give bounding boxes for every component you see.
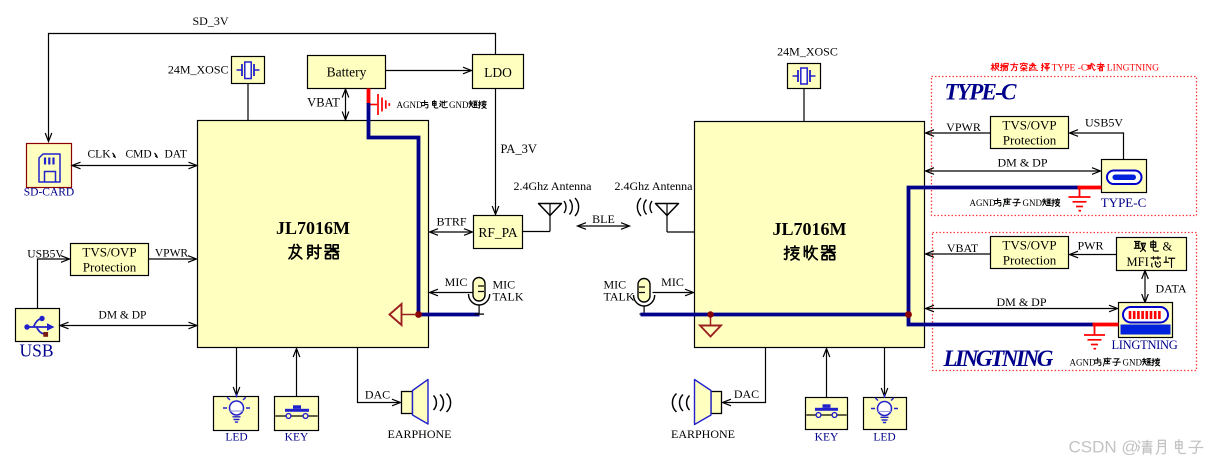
earphone SP2 speaker bbox=[711, 392, 722, 414]
usb J2 box bbox=[16, 309, 60, 342]
wire receiver DAC to earphone bbox=[724, 348, 766, 403]
battery B1 box bbox=[308, 56, 386, 89]
svg-text:GND: GND bbox=[449, 100, 469, 110]
svg-text:AGND: AGND bbox=[1070, 358, 1096, 368]
svg-text:USB5V: USB5V bbox=[1085, 116, 1123, 130]
svg-text:SD-CARD: SD-CARD bbox=[24, 187, 74, 199]
earphone SP1 speaker bbox=[402, 392, 413, 414]
svg-text:EARPHONE: EARPHONE bbox=[671, 427, 735, 441]
wire KEY2 to chip bbox=[826, 350, 828, 398]
wire chip to LED1 bbox=[236, 348, 238, 395]
wire X1 to chip bbox=[247, 84, 249, 121]
svg-text:DAC: DAC bbox=[365, 388, 390, 402]
svg-text:TVS/OVP: TVS/OVP bbox=[1002, 118, 1056, 133]
amplifier U3 RF_PA box bbox=[474, 216, 523, 249]
chip U5 JL7016M receiver bbox=[695, 122, 925, 348]
antenna ANT1 2.4Ghz bbox=[523, 231, 551, 233]
audio ground triangle (dark red) bbox=[710, 318, 712, 326]
crystal X1 icon bbox=[237, 69, 260, 71]
antenna ANT1 radiation arcs bbox=[564, 201, 566, 213]
svg-text:DM & DP: DM & DP bbox=[996, 295, 1046, 309]
wire TYPE-C to TVS USB5V bbox=[1071, 133, 1124, 160]
svg-text:TALK: TALK bbox=[604, 290, 635, 304]
usb icon trident bbox=[27, 326, 49, 328]
svg-text:CLK: CLK bbox=[88, 149, 112, 161]
antenna ANT2 2.4Ghz bbox=[650, 201, 652, 213]
chip U5 label 接收器 bbox=[784, 246, 799, 260]
arrowhead into RF_PA bbox=[492, 206, 499, 215]
microphone MK2 holder bbox=[634, 295, 655, 306]
svg-text:MIC: MIC bbox=[661, 275, 684, 289]
svg-text:DM & DP: DM & DP bbox=[99, 310, 147, 322]
svg-text:VPWR: VPWR bbox=[946, 120, 981, 134]
svg-text:PWR: PWR bbox=[1077, 239, 1103, 253]
earphone SP2 sound arcs bbox=[687, 396, 690, 411]
svg-text:LINGTNING: LINGTNING bbox=[1111, 338, 1177, 352]
connector J4 LIGHTNING box bbox=[1119, 303, 1173, 338]
junction dot at transmitter audio node bbox=[415, 311, 422, 318]
svg-text:24M_XOSC: 24M_XOSC bbox=[168, 63, 229, 77]
link BLE double arrow bbox=[579, 225, 628, 227]
svg-text:2.4Ghz Antenna: 2.4Ghz Antenna bbox=[615, 179, 694, 193]
svg-text:Protection: Protection bbox=[1003, 253, 1057, 268]
note 根据方案选择TYPE-C或者LINGTNING (red) bbox=[991, 63, 999, 71]
wire SD_3V net from LDO to SD-CARD bbox=[49, 34, 496, 141]
wire TVS to chip VPWR bbox=[149, 258, 196, 260]
key S1 switch icon bbox=[275, 415, 317, 417]
svg-text:DATA: DATA bbox=[1156, 282, 1187, 296]
led LED1 bulb icon bbox=[230, 401, 244, 415]
svg-text:DAT: DAT bbox=[165, 149, 187, 161]
bus DM DP double arrow usb bbox=[62, 325, 196, 327]
svg-text:MFI: MFI bbox=[1127, 255, 1149, 269]
svg-text:LDO: LDO bbox=[484, 65, 512, 80]
svg-text:TVS/OVP: TVS/OVP bbox=[1002, 238, 1056, 253]
svg-text:LED: LED bbox=[225, 432, 247, 444]
protection U7 TVS/OVP box bbox=[991, 237, 1069, 269]
wire red to TYPE-C connector bbox=[1078, 186, 1102, 190]
microphone MK1 stem tick bbox=[475, 313, 485, 315]
wire thick blue audio ground - receiver bbox=[641, 188, 1095, 325]
svg-text:USB: USB bbox=[19, 341, 53, 361]
crystal X2 icon bbox=[793, 75, 816, 77]
svg-text:MIC: MIC bbox=[445, 275, 468, 289]
wire LDO to RF_PA bbox=[495, 89, 497, 214]
junction dot receiver right bbox=[905, 311, 912, 318]
svg-text:JL7016M: JL7016M bbox=[276, 218, 350, 238]
svg-text:VPWR: VPWR bbox=[155, 248, 189, 260]
wire chip to LED2 bbox=[884, 348, 886, 396]
svg-text:TVS/OVP: TVS/OVP bbox=[82, 245, 136, 260]
svg-text:TYPE -C: TYPE -C bbox=[1052, 64, 1088, 74]
wire PWR MFI to TVS bbox=[1071, 254, 1117, 256]
svg-text:BLE: BLE bbox=[592, 212, 615, 226]
wire VPWR to receiver bbox=[927, 132, 991, 134]
wire USB to TVS bbox=[38, 259, 69, 309]
bus CLK CMD DAT double arrow bbox=[74, 165, 196, 167]
power U8 取电 MFI chip box bbox=[1117, 238, 1187, 271]
svg-text:BTRF: BTRF bbox=[436, 215, 466, 229]
svg-text:PA_3V: PA_3V bbox=[501, 142, 537, 156]
U8 label 取电 & bbox=[1134, 242, 1145, 252]
key S2 box bbox=[806, 398, 848, 430]
ground symbol typec (red) bbox=[1079, 189, 1081, 197]
svg-text:TYPE-C: TYPE-C bbox=[945, 80, 1018, 105]
crystal X1 box 24M_XOSC bbox=[232, 57, 265, 84]
microphone MK1 holder bbox=[469, 294, 490, 305]
svg-text:KEY: KEY bbox=[285, 432, 309, 444]
sd-card J1 box bbox=[27, 144, 72, 188]
chip U1 JL7016M transmitter bbox=[198, 121, 429, 348]
microphone MK1 capsule bbox=[473, 278, 485, 302]
wire Battery to LDO bbox=[386, 70, 471, 72]
svg-text:KEY: KEY bbox=[815, 432, 839, 444]
led LED2 box bbox=[864, 398, 907, 430]
wire mic to receiver chip bbox=[653, 292, 693, 294]
led LED1 box bbox=[214, 397, 259, 431]
wire BTRF double arrow bbox=[431, 231, 472, 233]
svg-text:TALK: TALK bbox=[493, 290, 524, 304]
key S2 switch icon bbox=[806, 414, 846, 416]
svg-text:JL7016M: JL7016M bbox=[773, 219, 847, 239]
svg-text:DAC: DAC bbox=[734, 387, 759, 401]
wire VBAT to receiver bbox=[927, 253, 991, 255]
svg-text:CSDN @: CSDN @ bbox=[1069, 438, 1139, 457]
svg-text:Protection: Protection bbox=[1003, 133, 1057, 148]
wire mic to chip bbox=[431, 292, 474, 294]
earphone SP1 sound arcs bbox=[434, 396, 437, 411]
svg-text:DM & DP: DM & DP bbox=[997, 156, 1047, 170]
audio-ground arrow (dark red open triangle) bbox=[402, 314, 417, 316]
wire thick blue audio ground - transmitter bbox=[367, 103, 480, 315]
svg-text:LED: LED bbox=[873, 432, 895, 444]
panel LIGHTNING dashed box bbox=[933, 233, 1197, 371]
wire VBAT double arrow battery to chip bbox=[345, 91, 347, 119]
chip U1 label 发射器 bbox=[289, 244, 302, 259]
svg-text:&: & bbox=[1163, 240, 1173, 254]
svg-text:2.4Ghz Antenna: 2.4Ghz Antenna bbox=[514, 179, 593, 193]
arrowhead into SD-CARD bbox=[45, 133, 52, 142]
svg-text:SD_3V: SD_3V bbox=[192, 14, 228, 28]
key S1 box bbox=[275, 397, 319, 431]
svg-text:TYPE-C: TYPE-C bbox=[1101, 195, 1147, 210]
connector J3 TYPE-C box bbox=[1102, 160, 1147, 193]
svg-text:CMD: CMD bbox=[126, 149, 152, 161]
connector J3 usb-c pill icon bbox=[1107, 171, 1142, 185]
ground symbol lightning (red) bbox=[1094, 326, 1096, 335]
svg-text:Protection: Protection bbox=[83, 260, 137, 275]
svg-text:VBAT: VBAT bbox=[947, 241, 979, 255]
panel TYPE-C dashed box bbox=[932, 77, 1197, 216]
svg-text:LINGTNING: LINGTNING bbox=[943, 346, 1054, 371]
microphone MK2 capsule bbox=[638, 279, 650, 303]
wire X2 to chip bbox=[803, 89, 805, 122]
arrowhead into LDO bbox=[463, 67, 472, 74]
wire red to LIGHTNING connector bbox=[1093, 323, 1119, 327]
wire battery ground stub red bbox=[367, 89, 371, 105]
led LED2 bulb icon bbox=[878, 402, 892, 416]
junction dot receiver left bbox=[707, 311, 713, 317]
bus DATA double arrow bbox=[1144, 272, 1146, 301]
arrowhead into TVS bbox=[61, 256, 70, 263]
regulator U2 LDO box bbox=[473, 55, 524, 89]
svg-text:AGND: AGND bbox=[970, 198, 996, 208]
svg-text:Battery: Battery bbox=[327, 65, 367, 80]
svg-text:EARPHONE: EARPHONE bbox=[387, 427, 451, 441]
ground AGND symbol at battery (rotated) bbox=[369, 104, 378, 106]
sd-card icon bbox=[39, 154, 60, 182]
wire chip DAC to earphone bbox=[358, 348, 400, 403]
svg-text:LINGTNING: LINGTNING bbox=[1107, 64, 1159, 74]
svg-text:GND: GND bbox=[1123, 358, 1143, 368]
protection U6 TVS/OVP box bbox=[991, 117, 1069, 149]
svg-text:RF_PA: RF_PA bbox=[478, 225, 518, 240]
microphone MK2 stem tick bbox=[640, 313, 650, 315]
svg-text:24M_XOSC: 24M_XOSC bbox=[777, 45, 838, 59]
svg-text:VBAT: VBAT bbox=[307, 96, 340, 110]
svg-text:GND: GND bbox=[1023, 198, 1043, 208]
svg-text:AGND: AGND bbox=[397, 100, 423, 110]
wire KEY1 to chip bbox=[296, 350, 298, 397]
protection U4 TVS/OVP box bbox=[71, 244, 149, 276]
crystal X2 box 24M_XOSC bbox=[788, 64, 821, 89]
connector J4 lightning pill icon bbox=[1123, 307, 1168, 323]
